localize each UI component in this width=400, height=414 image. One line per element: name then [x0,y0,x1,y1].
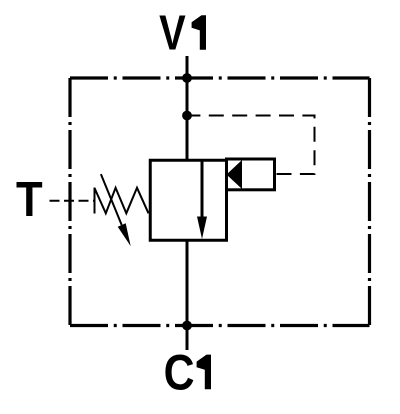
svg-text:C: C [164,344,195,400]
svg-text:T: T [16,171,43,226]
svg-text:V: V [159,4,186,60]
